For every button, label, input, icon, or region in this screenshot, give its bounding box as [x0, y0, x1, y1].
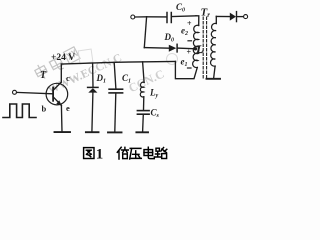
- node junction to D0: [144, 17, 146, 48]
- svg-text:b: b: [42, 104, 47, 114]
- inductor Ly: [140, 62, 144, 110]
- 倍: [117, 147, 128, 159]
- watermark ring: [167, 54, 178, 65]
- capacitor C0: [147, 13, 196, 23]
- diode D1: [88, 63, 98, 132]
- svg-text:1: 1: [96, 147, 104, 163]
- svg-text:+24 V: +24 V: [51, 53, 75, 63]
- watermark logo box: [78, 49, 93, 64]
- wire base: [17, 92, 53, 93]
- 压: [130, 148, 142, 159]
- svg-text:L: L: [195, 44, 203, 56]
- ground (secondary): [207, 78, 221, 80]
- capacitor C1: [109, 62, 123, 131]
- wire collector: [60, 64, 62, 82]
- wire to D0: [144, 47, 169, 50]
- svg-text:+: +: [187, 48, 192, 57]
- capacitor Cs: [137, 111, 149, 132]
- ground (emitter): [55, 131, 71, 133]
- watermark 中电网: [32, 46, 80, 81]
- polarity minus e1: [188, 67, 192, 69]
- ground (Cs): [136, 131, 148, 133]
- output terminal: [244, 15, 248, 19]
- svg-text:+: +: [187, 19, 192, 28]
- +24V rail wire: [61, 61, 175, 64]
- input terminal (C0 side): [131, 15, 135, 19]
- 电: [144, 147, 154, 158]
- svg-text:c: c: [66, 73, 70, 83]
- wire terminal to C0 junction: [135, 16, 147, 18]
- svg-text:T: T: [40, 70, 47, 81]
- square wave input signal: [3, 104, 36, 118]
- wire emitter: [60, 105, 63, 131]
- node b input terminal: [13, 90, 17, 94]
- transistor T: [46, 82, 68, 106]
- polarity minus e2: [188, 40, 192, 42]
- caption 图1 倍压电路 (hand-drawn hanzi): [84, 147, 167, 163]
- 路: [155, 148, 167, 159]
- junction center tap: [194, 47, 197, 50]
- transformer Tr primary winding e2/e1: [193, 16, 199, 68]
- transformer secondary winding: [211, 16, 217, 77]
- diode D0: [169, 44, 195, 52]
- transformer core: [202, 17, 204, 78]
- output diode: [230, 12, 244, 22]
- svg-text:e: e: [66, 103, 70, 113]
- 图: [84, 148, 94, 159]
- wire e1 bottom loop: [175, 61, 197, 78]
- ground (C1): [108, 131, 122, 133]
- ground (D1): [86, 131, 99, 133]
- wire secondary top to output diode: [216, 15, 230, 17]
